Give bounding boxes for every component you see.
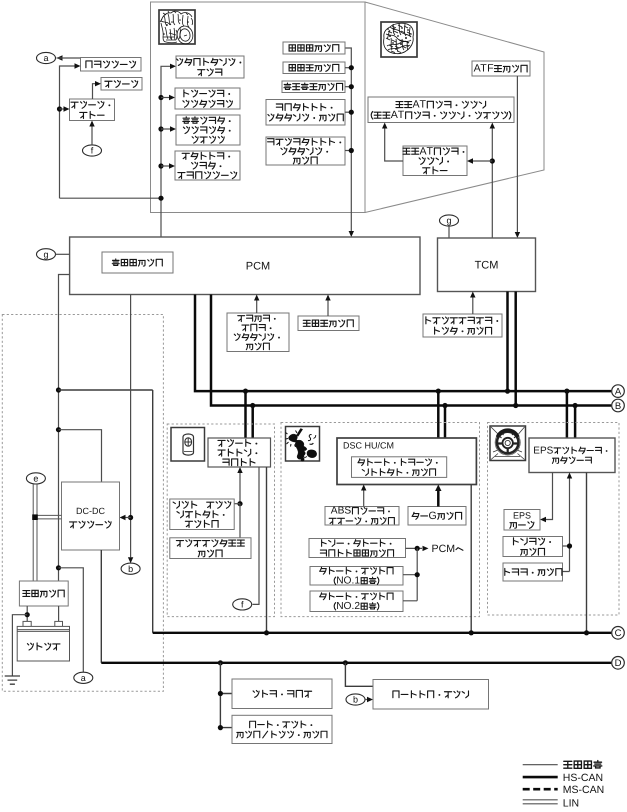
box ABS wheel speed sensor bbox=[325, 507, 399, 526]
wire junction to relay bbox=[473, 160, 492, 162]
wire to node a bbox=[59, 568, 84, 672]
wire to ground bbox=[12, 615, 27, 676]
svg-text:TCM: TCM bbox=[475, 260, 499, 272]
node a (top-left) bbox=[37, 52, 56, 63]
svg-text:e: e bbox=[33, 474, 38, 484]
svg-text:D: D bbox=[615, 658, 622, 669]
box throttle valve actuator bbox=[175, 151, 240, 180]
box coolant temp sensor 冷却水温センサ bbox=[282, 81, 345, 93]
junction throttle row bbox=[158, 163, 163, 168]
bus C riser bbox=[152, 390, 154, 633]
junction on riser bbox=[57, 106, 62, 111]
node g (left of PCM) bbox=[37, 249, 56, 260]
junction ground branch bbox=[25, 612, 30, 617]
arrow into TCM bottom bbox=[470, 292, 475, 298]
junction brake switch no.1 bbox=[415, 572, 420, 577]
box power brake unit vacuum sensor bbox=[309, 539, 406, 558]
box starter relay スタータ・リレー bbox=[70, 99, 115, 121]
wire IAT to collector bbox=[345, 67, 351, 69]
box electric AT oil pump (driver) bbox=[368, 97, 514, 123]
box brake switch no.1 bbox=[310, 567, 403, 586]
arrow into pump bottom left bbox=[382, 123, 387, 129]
wire wiper stub bbox=[234, 503, 240, 505]
junction wiper/steering feed bbox=[237, 501, 242, 506]
junction PCM branch bbox=[415, 546, 420, 551]
arrow into throttle actuator bbox=[169, 163, 175, 168]
box MAP sensor 吸気圧センサ bbox=[283, 42, 345, 54]
box back camera バック・カメラ bbox=[232, 679, 332, 709]
wire to DC-DC right bbox=[126, 517, 131, 519]
LIN junction square bbox=[32, 514, 38, 520]
svg-text:AT: AT bbox=[420, 145, 434, 157]
DSC drop from bus B bbox=[444, 406, 447, 438]
junction engine column / starter riser bbox=[158, 196, 163, 201]
svg-text:NO.2: NO.2 bbox=[336, 601, 360, 612]
junction bus B bbox=[442, 403, 447, 408]
wire g to PCM left bbox=[56, 253, 70, 255]
wire riser to alternator bbox=[60, 66, 75, 198]
wire to DC-DC top bbox=[59, 430, 102, 482]
junction resolver bbox=[567, 543, 572, 548]
junction DC-DC arrow bbox=[128, 515, 133, 520]
box audio amp オーディオ・アンプ bbox=[373, 680, 489, 710]
svg-text:G: G bbox=[429, 510, 437, 522]
node g (above TCM) bbox=[440, 215, 459, 226]
svg-text:DC-DC: DC-DC bbox=[76, 506, 105, 516]
battery terminal right bbox=[55, 621, 63, 626]
svg-text:ABS: ABS bbox=[331, 506, 352, 517]
box battery バッテリ bbox=[17, 626, 69, 661]
key fob icon bbox=[183, 434, 194, 455]
node a (bottom) bbox=[74, 672, 93, 683]
junction bus B bbox=[513, 403, 518, 408]
start-stop unit drop from bus B bbox=[251, 406, 254, 439]
box auto light / rain sensor bbox=[232, 715, 332, 743]
engine section outline bbox=[151, 2, 366, 213]
box ignition coil イグニッション・コイル bbox=[176, 56, 244, 78]
brake switch collector bbox=[403, 548, 417, 600]
svg-text:HS-CAN: HS-CAN bbox=[563, 772, 603, 784]
svg-text:B: B bbox=[615, 401, 621, 412]
arrow into DSC bottom bbox=[361, 485, 366, 491]
wire riser bottom to engine column bbox=[60, 197, 161, 199]
svg-text:b: b bbox=[353, 695, 358, 705]
legend LIN bbox=[523, 799, 558, 801]
node b (audio amp) bbox=[346, 694, 365, 705]
wire b to amp bbox=[365, 699, 367, 701]
legend MS-CAN bbox=[523, 788, 558, 791]
arrow into relay bottom bbox=[89, 121, 94, 127]
brake unit sketch icon bbox=[286, 429, 317, 461]
junction auto light sensor bbox=[218, 725, 223, 730]
junction bus C DSC bbox=[469, 630, 474, 635]
wire pump relay left riser bbox=[385, 129, 403, 162]
box current sensor 電流センサ bbox=[19, 581, 68, 606]
bus A (HS-CAN) bbox=[195, 295, 611, 392]
junction bus C start-stop bbox=[264, 630, 269, 635]
EPS drop from bus B bbox=[574, 406, 577, 439]
box wiper and washer switch bbox=[170, 499, 234, 530]
box intake air temp sensor 吸気温センサ bbox=[283, 62, 345, 74]
junction camera bbox=[218, 691, 223, 696]
arrow into PCM bottom bbox=[254, 295, 259, 301]
svg-text:DSC HU/CM: DSC HU/CM bbox=[343, 441, 394, 451]
box low-G sensor ローGセンサ bbox=[408, 507, 466, 526]
box camshaft position sensor bbox=[266, 100, 345, 126]
bus D bbox=[101, 662, 611, 664]
junction bus B bbox=[573, 403, 578, 408]
arrow into EPS motor bbox=[540, 517, 546, 522]
box barometric pressure sensor 大気圧センサ bbox=[102, 252, 173, 273]
arrow into pump bottom right bbox=[490, 123, 495, 129]
camera/auto-light feed bbox=[220, 663, 232, 728]
wire g to TCM bbox=[448, 226, 450, 238]
arrow into fuel injector bbox=[169, 95, 175, 100]
junction bus B bbox=[250, 403, 255, 408]
bus label A bbox=[612, 385, 625, 398]
arrow into DSC bottom (CAN) bbox=[435, 485, 441, 492]
engine icon box bbox=[159, 10, 195, 44]
arrow into starter bbox=[95, 81, 101, 86]
legend HS-CAN bbox=[523, 776, 558, 779]
junction bus C EPS bbox=[584, 630, 589, 635]
dashed enclosure: DSC section bbox=[281, 423, 480, 617]
wire ABS sensor to DSC bbox=[363, 491, 365, 507]
node f (under relay) bbox=[83, 145, 102, 156]
battery terminal left bbox=[23, 621, 31, 626]
transmission icon box bbox=[381, 22, 417, 57]
svg-text:g: g bbox=[43, 249, 48, 259]
wire ambient sensor to PCM bbox=[327, 301, 329, 317]
brake icon box bbox=[286, 427, 320, 462]
steering wheel icon bbox=[491, 427, 525, 460]
arrow into PCM top bbox=[349, 231, 354, 237]
arrow into node a bbox=[57, 55, 63, 60]
CAN wire low-G sensor to DSC bbox=[437, 490, 440, 507]
module TCM bbox=[438, 238, 536, 292]
junction to DC-DC feed bbox=[56, 427, 61, 432]
junction bus D camera branch bbox=[218, 660, 223, 665]
dashed enclosure: power supply section bbox=[2, 315, 163, 692]
legend wire electrical bbox=[523, 764, 558, 766]
box crankshaft position sensor bbox=[266, 137, 345, 165]
box accelerator pedal position sensor bbox=[227, 313, 289, 352]
junction bus A bbox=[505, 389, 510, 394]
battery top band line 2 bbox=[17, 630, 69, 632]
arrow into VVT driver bbox=[170, 126, 176, 131]
svg-text:AT: AT bbox=[413, 99, 427, 111]
key icon box bbox=[171, 428, 205, 462]
box variable valve timing driver bbox=[176, 115, 240, 145]
start-stop unit drop from bus A bbox=[244, 391, 247, 438]
wire ATF sensor to TCM bbox=[516, 76, 518, 232]
arrow into DC-DC right side bbox=[120, 515, 126, 520]
svg-text:A: A bbox=[615, 387, 622, 398]
transmission section outline bbox=[365, 2, 544, 213]
svg-text:a: a bbox=[81, 673, 86, 683]
svg-text:C: C bbox=[615, 628, 622, 639]
wire to VVT driver bbox=[161, 128, 170, 130]
wire to fuel injector bbox=[161, 97, 169, 99]
module PCM bbox=[70, 237, 420, 295]
wire range sensor to TCM bbox=[472, 298, 474, 315]
wire to throttle actuator bbox=[161, 165, 169, 167]
wire current sensor to battery - bbox=[58, 606, 60, 621]
wire relay to starter bbox=[93, 84, 96, 99]
TCM drop to bus B bbox=[514, 292, 517, 406]
svg-text:NO.1: NO.1 bbox=[336, 576, 360, 587]
junction pump feed / relay bbox=[490, 158, 495, 163]
battery top band line 1 bbox=[17, 629, 69, 631]
bus D riser from DC-DC bbox=[100, 550, 102, 663]
wire DSC to bus C bbox=[470, 485, 472, 633]
arrow into EPS module bottom bbox=[567, 473, 572, 479]
wire EPS module to bus C bbox=[586, 473, 588, 633]
svg-text:AT: AT bbox=[391, 109, 405, 121]
box resolver sensor レゾルバ・センサ bbox=[503, 537, 563, 557]
wire to bus C riser bbox=[59, 389, 153, 391]
box alternator オルタネータ bbox=[81, 58, 142, 72]
junction fuel injector row bbox=[158, 95, 163, 100]
bus C bbox=[153, 632, 612, 634]
arrow into PCM bottom 2 bbox=[325, 295, 330, 301]
dashed enclosure: EPS section bbox=[488, 423, 620, 616]
box starter スタータ bbox=[101, 78, 142, 91]
wire bus D to audio amp bbox=[345, 663, 373, 687]
node f (start-stop section) bbox=[233, 599, 252, 610]
wire CMP to collector bbox=[345, 111, 351, 113]
wire alternator to node a bbox=[57, 57, 81, 59]
wire current sensor to battery + bbox=[26, 606, 28, 621]
arrow into node b bbox=[128, 557, 133, 563]
wire ECT to collector bbox=[345, 86, 351, 88]
junction bus A bbox=[564, 389, 569, 394]
box EPS motor bbox=[504, 510, 540, 531]
wire unit to bus C bbox=[266, 467, 268, 633]
arrow to PCM text bbox=[423, 546, 429, 551]
wire CKP to collector bbox=[345, 150, 351, 152]
node e bbox=[26, 473, 45, 484]
module DSC HU/CM bbox=[337, 438, 476, 485]
bus label C bbox=[612, 627, 625, 640]
box ambient temp sensor 外気温センサ bbox=[298, 316, 359, 331]
junction VVT row bbox=[158, 126, 163, 131]
box torque sensor トルク・センサ bbox=[503, 563, 563, 581]
svg-text:MS-CAN: MS-CAN bbox=[563, 784, 604, 796]
svg-text:EPS: EPS bbox=[533, 445, 553, 456]
TCM drop to bus A bbox=[506, 292, 509, 392]
wire APP sensor to PCM bbox=[256, 301, 258, 314]
arrow into audio amp bbox=[367, 697, 373, 702]
box ATF temp sensor ATF温センサ bbox=[472, 61, 530, 76]
junction to node a riser bbox=[56, 565, 61, 570]
svg-text:b: b bbox=[128, 564, 133, 574]
LIN double line from e down to current sensor bbox=[32, 484, 34, 581]
svg-text:g: g bbox=[446, 216, 451, 226]
svg-text:PCM: PCM bbox=[432, 543, 456, 555]
junction bus D amp branch bbox=[343, 660, 348, 665]
wire pump feed from TCM bbox=[491, 129, 493, 239]
box fuel injector フューエル・インジェクタ bbox=[175, 88, 240, 109]
arrow into TCM top bbox=[515, 232, 520, 238]
junction to bus C riser bbox=[56, 387, 61, 392]
wire f to relay bbox=[91, 127, 93, 145]
junction bus A bbox=[243, 389, 248, 394]
bus label D bbox=[612, 657, 625, 670]
wire wiper switch to unit bbox=[239, 473, 241, 504]
box electric AT oil pump relay bbox=[403, 146, 467, 176]
box DC-DC converter bbox=[62, 482, 120, 550]
svg-text:EPS: EPS bbox=[513, 511, 531, 521]
arrow into relay bbox=[64, 106, 70, 111]
box steering angle sensor bbox=[170, 538, 251, 559]
wire EPS module to EPS motor bbox=[546, 473, 553, 520]
arrow into ignition coil bbox=[170, 64, 176, 69]
engine sensor collector line bbox=[345, 48, 351, 231]
wire f to unit bottom bbox=[253, 467, 260, 604]
wire vacuum sensor to PCM label bbox=[406, 547, 423, 549]
LIN double line branch to DC-DC bbox=[35, 514, 62, 516]
wire to relay bbox=[60, 108, 64, 110]
svg-text:LIN: LIN bbox=[563, 798, 579, 810]
box start-stop unit bbox=[208, 438, 271, 467]
svg-text:ATF: ATF bbox=[474, 63, 495, 75]
dashed enclosure: start-stop unit section bbox=[167, 424, 274, 617]
wire PCM to node b bbox=[130, 295, 132, 558]
box brake switch no.2 bbox=[310, 591, 403, 612]
box transaxle range sensor bbox=[423, 314, 502, 337]
wire to steering angle sensor bbox=[239, 504, 241, 538]
arrow into relay right side bbox=[467, 158, 473, 163]
arrow into unit bottom bbox=[237, 467, 242, 473]
DSC drop from bus A bbox=[437, 391, 440, 437]
bus label B bbox=[612, 399, 625, 412]
node b (power section) bbox=[121, 563, 140, 574]
wire resolver/torque collector to EPS module bbox=[563, 479, 570, 572]
EPS drop from bus A bbox=[566, 391, 569, 438]
engine actuator feed line bbox=[161, 66, 170, 237]
wire PCM left exit down bbox=[59, 275, 70, 582]
steering icon box bbox=[490, 426, 526, 461]
junction bus A bbox=[436, 389, 441, 394]
bus B (HS-CAN) bbox=[211, 295, 611, 406]
arrow into alternator bbox=[75, 63, 81, 68]
ground symbol bbox=[5, 676, 20, 684]
box brake fluid pressure sensor bbox=[352, 457, 447, 478]
svg-text:a: a bbox=[43, 53, 48, 63]
svg-text:PCM: PCM bbox=[246, 261, 270, 273]
module EPS control module bbox=[529, 438, 615, 473]
